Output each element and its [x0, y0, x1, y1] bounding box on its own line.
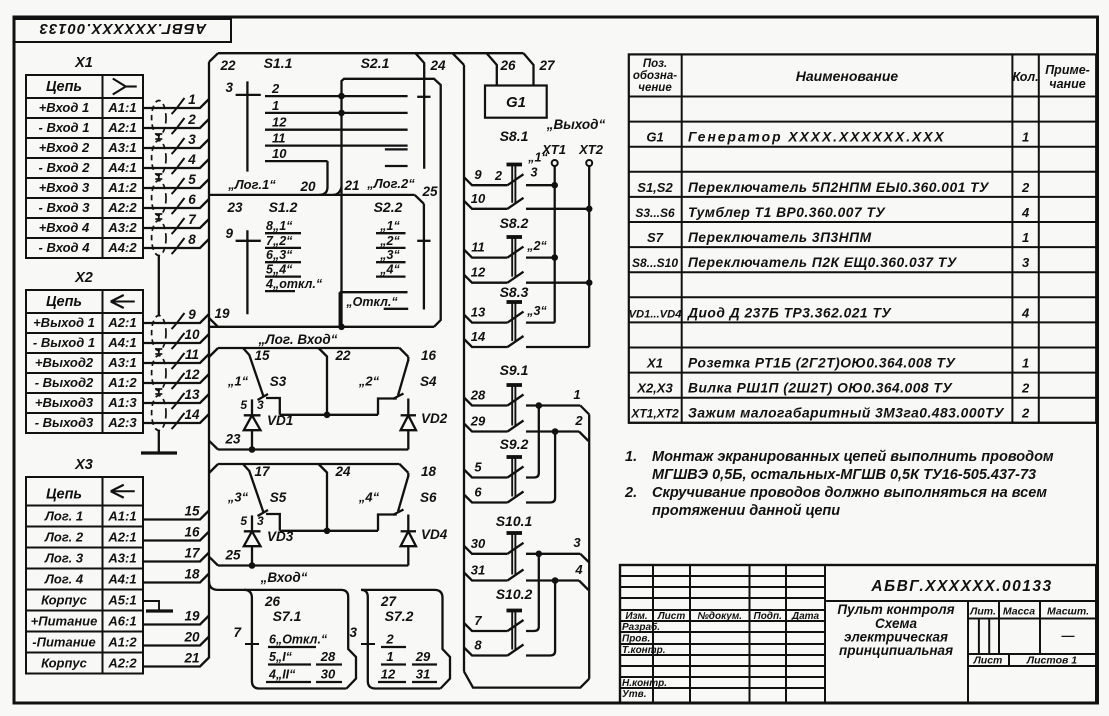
svg-text:15: 15	[254, 348, 270, 363]
switch S7.2 box outline	[361, 590, 450, 689]
svg-text:S3: S3	[270, 374, 287, 389]
node 20 label	[299, 179, 316, 194]
switch S1.2 contact	[265, 234, 301, 248]
diode VD2	[401, 399, 448, 450]
wire 12 from X2 to trunk	[143, 367, 209, 389]
svg-text:чение: чение	[638, 82, 672, 94]
svg-text:7: 7	[474, 613, 482, 628]
diode VD3	[244, 529, 294, 569]
stub wire 22 from top to middle node	[319, 348, 328, 415]
switch S10.2 actuator	[496, 586, 533, 650]
switch S1.1 contact 12	[265, 115, 408, 130]
svg-text:Лог. 1: Лог. 1	[44, 509, 83, 524]
svg-text:19: 19	[184, 609, 200, 624]
svg-text:ХТ1: ХТ1	[541, 142, 566, 157]
svg-text:S6: S6	[420, 490, 437, 505]
svg-text:—: —	[1061, 628, 1076, 643]
wire from S5 to middle node	[266, 514, 280, 531]
svg-text:3: 3	[573, 535, 581, 550]
svg-text:Переключатель 5П2НПМ ЕЫ0.360.0: Переключатель 5П2НПМ ЕЫ0.360.001 ТУ	[688, 180, 990, 195]
rail from S10.1 to S10.2 lower	[526, 581, 555, 656]
svg-text:-Питание: -Питание	[32, 635, 95, 650]
wire 15 from X3 to trunk	[143, 504, 209, 520]
svg-text:3: 3	[257, 398, 264, 412]
wire 8 into S10.2 lower contact	[464, 638, 524, 656]
svg-text:S2.1: S2.1	[361, 55, 390, 71]
svg-text:S1,S2: S1,S2	[637, 180, 673, 195]
svg-text:VD2: VD2	[421, 411, 448, 426]
switch S1.1 contact 10	[265, 146, 328, 161]
rail from S9.1 to S9.2 lower	[526, 432, 555, 503]
svg-text:1: 1	[1022, 130, 1029, 145]
svg-text:Корпус: Корпус	[41, 656, 88, 671]
switch S2.2 contact	[376, 219, 406, 233]
switch S8.3 actuator	[500, 284, 529, 341]
wire 13 from X2 to trunk	[143, 387, 209, 409]
toggle switch S6	[358, 473, 437, 515]
parts row S8...S10	[632, 255, 1030, 270]
wire 6 into S9.2 lower contact	[464, 485, 524, 503]
switch S7.2 contact 12 with wire 31	[378, 667, 437, 683]
wire 20 from X3 to trunk	[143, 630, 209, 646]
middle wire between S3 and S4	[280, 412, 378, 419]
wire 10 from X2 to trunk	[143, 327, 209, 349]
wire 11 from X2 to trunk	[143, 347, 209, 369]
svg-text:Розетка РТ1Б (2Г2Т)ОЮ0.364.008: Розетка РТ1Б (2Г2Т)ОЮ0.364.008 ТУ	[688, 356, 956, 371]
svg-text:G1: G1	[646, 130, 663, 145]
svg-text:А3:1: А3:1	[107, 551, 136, 566]
svg-text:- Вход 2: - Вход 2	[39, 160, 91, 175]
svg-text:2: 2	[1021, 381, 1030, 396]
svg-text:13: 13	[471, 305, 486, 320]
svg-text:6„3“: 6„3“	[266, 248, 293, 262]
svg-text:Приме-: Приме-	[1045, 63, 1090, 77]
wire 31 into S10.1 lower contact	[464, 563, 524, 581]
wire 19 from X3 to trunk	[143, 609, 209, 625]
svg-text:14: 14	[471, 329, 486, 344]
svg-text:18: 18	[421, 464, 437, 479]
svg-text:Подп.: Подп.	[754, 611, 782, 622]
generator G1	[485, 86, 547, 118]
node 19 label	[214, 306, 230, 321]
ground chassis symbol at X3 Корпус pin	[143, 601, 173, 611]
svg-text:16: 16	[184, 525, 200, 540]
svg-text:29: 29	[470, 414, 486, 429]
svg-text:+Выход2: +Выход2	[35, 355, 94, 370]
wire 9 into S8.1 upper contact	[464, 167, 524, 185]
svg-text:+Питание: +Питание	[31, 614, 98, 629]
svg-text:S9.2: S9.2	[500, 436, 529, 452]
wire 7 from X1 to trunk	[143, 212, 209, 234]
svg-text:2: 2	[1021, 406, 1030, 421]
svg-text:Кол.: Кол.	[1013, 70, 1039, 84]
svg-text:А3:1: А3:1	[107, 355, 136, 370]
switch S9.2 actuator	[500, 436, 529, 497]
svg-text:А2:1: А2:1	[107, 120, 136, 135]
toggle switch S4	[358, 357, 437, 399]
svg-text:8„1“: 8„1“	[266, 219, 293, 233]
rail from S10.1 to S10.2 upper	[526, 554, 539, 631]
svg-text:6: 6	[188, 192, 196, 207]
svg-text:21: 21	[183, 651, 199, 666]
svg-text:Переключатель 3П3НПМ: Переключатель 3П3НПМ	[688, 230, 872, 245]
diode VD4	[401, 515, 448, 566]
svg-text:3: 3	[531, 166, 538, 180]
switch S7.2 contact 1 with wire 29	[381, 649, 437, 665]
switch S2.2 pole	[374, 199, 431, 310]
switch S1.1 contact 11	[265, 131, 408, 146]
S8.1 upper output wire to XT1 rail	[526, 182, 558, 189]
svg-text:обозна-: обозна-	[633, 70, 677, 82]
net 1 wire from S9.1 upper output	[526, 387, 589, 415]
svg-text:S9.1: S9.1	[500, 362, 529, 378]
svg-text:Лит.: Лит.	[969, 606, 996, 618]
wire 5 from X1 to trunk	[143, 172, 209, 194]
svg-text:+Вход 3: +Вход 3	[39, 180, 90, 195]
svg-text:23: 23	[224, 432, 241, 447]
wire from top bus down to S8 trunk	[453, 53, 465, 65]
svg-text:VD1...VD4: VD1...VD4	[629, 308, 683, 320]
svg-text:S3...S6: S3...S6	[635, 206, 675, 220]
svg-text:5„4“: 5„4“	[266, 263, 293, 277]
svg-text:S7: S7	[647, 230, 664, 245]
svg-text:2: 2	[574, 413, 583, 428]
svg-text:Х1: Х1	[646, 356, 663, 371]
switch S1.1 contact 2	[265, 81, 408, 96]
svg-text:20: 20	[299, 179, 316, 194]
svg-text:21: 21	[343, 178, 359, 193]
svg-text:5: 5	[474, 460, 482, 475]
svg-text:+Выход3: +Выход3	[35, 395, 94, 410]
switch S7.1 box outline	[209, 581, 356, 689]
node 23 label	[226, 200, 243, 215]
wire 1 from X1 to trunk	[143, 92, 209, 114]
svg-text:4: 4	[574, 562, 583, 577]
svg-text:1: 1	[272, 98, 279, 113]
svg-text:5: 5	[240, 514, 247, 528]
svg-text:5: 5	[188, 172, 196, 187]
S8.3 position label 3	[526, 304, 547, 318]
svg-text:28: 28	[320, 649, 336, 664]
svg-text:20: 20	[183, 630, 200, 645]
switch S1.2 contact	[265, 248, 301, 262]
S8.2 position label 2	[526, 239, 547, 253]
parts row Х2,Х3	[636, 381, 1030, 396]
svg-text:8: 8	[188, 232, 196, 247]
svg-text:„1“: „1“	[227, 374, 249, 389]
svg-text:Лог. 3: Лог. 3	[44, 551, 84, 566]
switch S7.2 pole tick	[349, 625, 375, 644]
wire from S6 to middle node	[378, 515, 397, 531]
net Лог.Вход bus wire	[209, 318, 434, 327]
svg-text:Монтаж экранированных цепей вы: Монтаж экранированных цепей выполнить пр…	[652, 449, 1054, 465]
svg-text:Диод Д 237Б ТР3.362.021 ТУ: Диод Д 237Б ТР3.362.021 ТУ	[687, 305, 892, 320]
shield bus wire from X1 bundle to X2 bundle	[158, 256, 160, 317]
rail from S9.1 to S9.2 upper	[526, 406, 539, 478]
switch S1.2 contact	[265, 219, 301, 233]
svg-text:Пров.: Пров.	[622, 634, 650, 645]
wire 7 into S10.2 upper contact	[464, 613, 524, 631]
wire 6 from X1 to trunk	[143, 192, 209, 214]
net Лог.Вход label	[258, 332, 338, 347]
svg-text:6: 6	[474, 485, 482, 500]
svg-text:3: 3	[1022, 255, 1030, 270]
svg-text:А1:2: А1:2	[107, 375, 137, 390]
svg-text:S8.2: S8.2	[500, 215, 529, 231]
net 3 wire from S10.1 upper output	[526, 535, 589, 563]
connector X3 table	[26, 457, 143, 674]
svg-text:S7.2: S7.2	[385, 608, 414, 624]
S8.1 lower output wire to XT2 rail	[526, 206, 593, 213]
svg-text:9: 9	[225, 226, 233, 241]
wire 28 into S9.1 upper contact	[464, 388, 524, 406]
right rail bus for nets 1-4	[588, 415, 590, 679]
svg-text:МГШВЭ 0,5Б, остальных-МГШВ 0,5: МГШВЭ 0,5Б, остальных-МГШВ 0,5К ТУ16-505…	[652, 467, 1036, 483]
switch S8.1 actuator	[500, 128, 529, 203]
net Выход label	[546, 117, 606, 132]
svg-text:S8.1: S8.1	[500, 128, 529, 144]
parts row VD1...VD4	[629, 305, 1030, 320]
wire 26 from top bus to G1	[487, 53, 516, 85]
parts row G1	[646, 130, 1029, 145]
svg-text:18: 18	[184, 567, 200, 582]
svg-text:А4:2: А4:2	[107, 240, 137, 255]
svg-text:А2:1: А2:1	[107, 530, 136, 545]
node 24 corner and S2.1 pole wire	[416, 53, 446, 169]
svg-text:А4:1: А4:1	[107, 335, 136, 350]
wire 29 into S9.1 lower contact	[464, 414, 524, 432]
wire 12 into S8.2 lower contact	[464, 265, 524, 283]
switch S2.2 contact	[376, 263, 406, 277]
svg-text:А2:1: А2:1	[107, 315, 136, 330]
parts row Х1	[646, 356, 1029, 371]
S2.1 top throw wire	[342, 79, 441, 327]
svg-text:„1“: „1“	[379, 219, 400, 233]
svg-text:10: 10	[471, 191, 486, 206]
svg-text:А1:1: А1:1	[107, 509, 136, 524]
parts row S7	[647, 230, 1029, 245]
svg-text:3: 3	[257, 514, 264, 528]
svg-text:„3“: „3“	[227, 490, 249, 505]
svg-text:2: 2	[187, 112, 196, 127]
svg-text:Лист: Лист	[973, 655, 1003, 667]
svg-text:5: 5	[240, 398, 247, 412]
svg-text:Пульт контроля: Пульт контроля	[837, 602, 954, 617]
net Лог.2 label	[366, 176, 415, 191]
connector X1 table	[26, 55, 143, 258]
svg-text:17: 17	[184, 546, 201, 561]
diode VD1	[244, 413, 293, 453]
S8.3 lower output wire to XT2 rail	[526, 346, 589, 348]
svg-text:Х2: Х2	[74, 270, 93, 286]
svg-text:А1:2: А1:2	[107, 180, 137, 195]
svg-text:Х3: Х3	[74, 457, 93, 473]
wire 8 from X1 to trunk	[143, 232, 209, 254]
svg-text:А2:3: А2:3	[107, 415, 137, 430]
svg-text:„3“: „3“	[379, 248, 400, 262]
svg-text:2: 2	[494, 169, 502, 183]
wire 10 into S8.1 lower contact	[464, 191, 524, 209]
wire from S3 to middle node	[266, 398, 280, 415]
svg-text:VD4: VD4	[421, 527, 448, 542]
svg-text:14: 14	[184, 407, 200, 422]
svg-text:„4“: „4“	[379, 263, 400, 277]
wire 30 into S10.1 upper contact	[464, 536, 524, 554]
switch S9.1 actuator	[500, 362, 529, 426]
svg-text:+Вход 4: +Вход 4	[39, 220, 90, 235]
toggle switch S5	[227, 464, 287, 531]
svg-text:Генератор ХХХХ.ХХХХХХ.ХХХ: Генератор ХХХХ.ХХХХХХ.ХХХ	[688, 130, 946, 145]
svg-text:10: 10	[184, 327, 200, 342]
right assembly trunk and bottom return bus	[464, 65, 589, 688]
svg-text:А4:1: А4:1	[107, 572, 136, 587]
switch S8.2 actuator	[500, 215, 529, 277]
svg-text:4: 4	[1021, 305, 1030, 320]
svg-text:22: 22	[219, 58, 236, 73]
svg-text:16: 16	[421, 348, 437, 363]
switch S7.1 contact 5 I with wire 28	[268, 649, 342, 665]
wire 16 from X3 to trunk	[143, 525, 209, 541]
switch S2.2 contact	[376, 234, 406, 248]
switch S2.2 Откл contact and enclosure wire	[340, 292, 409, 327]
svg-text:- Вход 4: - Вход 4	[39, 240, 91, 255]
svg-text:1: 1	[1022, 356, 1029, 371]
wire 17 from X3 to trunk	[143, 546, 209, 562]
svg-text:31: 31	[416, 667, 430, 682]
svg-text:+Выход 1: +Выход 1	[33, 315, 95, 330]
svg-text:2: 2	[385, 632, 394, 647]
svg-text:8: 8	[474, 638, 482, 653]
svg-text:Х2,Х3: Х2,Х3	[636, 381, 673, 396]
note 2 text	[624, 485, 1047, 519]
svg-text:„Лог.2“: „Лог.2“	[366, 176, 415, 191]
svg-text:„Лог.1“: „Лог.1“	[227, 177, 276, 192]
switch S1.1 pole	[225, 55, 292, 172]
svg-text:24: 24	[429, 58, 446, 73]
svg-text:S8...S10: S8...S10	[632, 256, 678, 270]
svg-text:Наименование: Наименование	[796, 68, 899, 84]
svg-text:1: 1	[573, 387, 580, 402]
switch S2.2 contact	[376, 248, 406, 262]
svg-text:Листов 1: Листов 1	[1026, 655, 1077, 667]
svg-text:„2“: „2“	[379, 234, 400, 248]
svg-text:Утв.: Утв.	[622, 689, 646, 700]
svg-text:30: 30	[321, 667, 336, 682]
svg-text:S2.2: S2.2	[374, 199, 403, 215]
svg-text:5„I“: 5„I“	[269, 650, 293, 664]
svg-text:7„2“: 7„2“	[266, 234, 293, 248]
switch S7.1 contact 4 II with wire 30	[266, 667, 342, 683]
svg-text:30: 30	[471, 536, 486, 551]
svg-text:„Лог. Вход“: „Лог. Вход“	[258, 332, 338, 347]
svg-text:25: 25	[421, 184, 438, 199]
svg-text:S10.2: S10.2	[496, 586, 533, 602]
svg-text:Лог. 4: Лог. 4	[44, 572, 84, 587]
svg-text:31: 31	[471, 563, 485, 578]
svg-text:1: 1	[188, 92, 196, 107]
svg-text:24: 24	[334, 464, 351, 479]
svg-text:„Откл.“: „Откл.“	[345, 295, 398, 309]
svg-text:3: 3	[349, 625, 357, 640]
net Лог.1 label	[227, 177, 276, 192]
svg-text:3: 3	[188, 132, 196, 147]
switch S1.1 contact 1	[265, 98, 408, 113]
vertical wire from S2.1 through junctions to Лог.Вход node	[338, 85, 345, 330]
wire 5 into S9.2 upper contact	[464, 460, 524, 478]
svg-text:S5: S5	[270, 490, 287, 505]
svg-text:7: 7	[233, 625, 242, 640]
shield symbols over X2 pairs	[152, 316, 166, 431]
svg-text:Лог. 2: Лог. 2	[44, 530, 84, 545]
svg-text:А5:1: А5:1	[107, 593, 136, 608]
svg-text:2: 2	[271, 81, 280, 96]
switch S1.2 pole	[225, 199, 297, 314]
svg-text:А4:1: А4:1	[107, 160, 136, 175]
parts row S3...S6	[635, 205, 1030, 220]
switch S10.1 actuator	[496, 513, 533, 575]
svg-text:4: 4	[187, 152, 196, 167]
svg-text:А6:1: А6:1	[107, 614, 136, 629]
svg-text:11: 11	[272, 131, 286, 146]
net Лог.1 bus wire with exits 20 and 21	[209, 161, 424, 204]
svg-text:А2:2: А2:2	[107, 200, 137, 215]
svg-text:АБВГ.ХХХХХХ.00133: АБВГ.ХХХХХХ.00133	[39, 20, 208, 37]
svg-text:+Вход 2: +Вход 2	[39, 140, 90, 155]
svg-text:А3:2: А3:2	[107, 220, 137, 235]
svg-text:1.: 1.	[625, 449, 637, 465]
svg-text:протяжении данной цепи: протяжении данной цепи	[652, 503, 840, 519]
svg-text:2.: 2.	[624, 485, 637, 501]
svg-text:19: 19	[214, 306, 230, 321]
svg-text:13: 13	[184, 387, 200, 402]
middle wire between S5 and S6	[280, 528, 378, 535]
svg-text:23: 23	[226, 200, 243, 215]
svg-text:- Выход 1: - Выход 1	[33, 335, 95, 350]
parts row ХТ1,ХТ2	[630, 406, 1030, 421]
net Вход label	[260, 570, 308, 585]
svg-text:Цепь: Цепь	[46, 294, 82, 310]
switch S1.2 contact	[265, 263, 301, 277]
svg-text:S8.3: S8.3	[500, 284, 529, 300]
left vertical trunk bus	[208, 62, 210, 658]
svg-text:„2“: „2“	[526, 239, 547, 253]
switch S7.1 pole tick	[233, 625, 259, 644]
wire 9 from X2 to trunk	[143, 307, 209, 329]
wire 11 into S8.2 upper contact	[464, 240, 524, 258]
svg-text:7: 7	[188, 212, 197, 227]
svg-text:6„Откл.“: 6„Откл.“	[269, 633, 328, 647]
svg-text:S4: S4	[420, 374, 437, 389]
svg-text:4: 4	[1021, 205, 1030, 220]
svg-text:„4“: „4“	[358, 490, 380, 505]
wire 27 from top bus to G1	[524, 53, 556, 85]
svg-text:1: 1	[1022, 230, 1029, 245]
wire 4 from X1 to trunk	[143, 152, 209, 174]
parts row S1,S2	[637, 180, 1030, 195]
connector X2 table	[26, 270, 143, 433]
svg-text:4„откл.“: 4„откл.“	[265, 277, 323, 291]
svg-text:„2“: „2“	[358, 374, 380, 389]
switch S7.2 contact 2	[381, 632, 406, 648]
stub wire 24 from top to middle node	[319, 464, 328, 531]
svg-text:29: 29	[415, 649, 431, 664]
ground chassis symbol below X2 shields	[141, 431, 177, 454]
svg-text:„3“: „3“	[526, 304, 547, 318]
S8.2 lower output wire to XT2 rail	[526, 279, 593, 286]
node 22 corner label	[219, 58, 236, 73]
switch S1.2 contact	[265, 277, 323, 291]
svg-text:Корпус: Корпус	[41, 593, 88, 608]
